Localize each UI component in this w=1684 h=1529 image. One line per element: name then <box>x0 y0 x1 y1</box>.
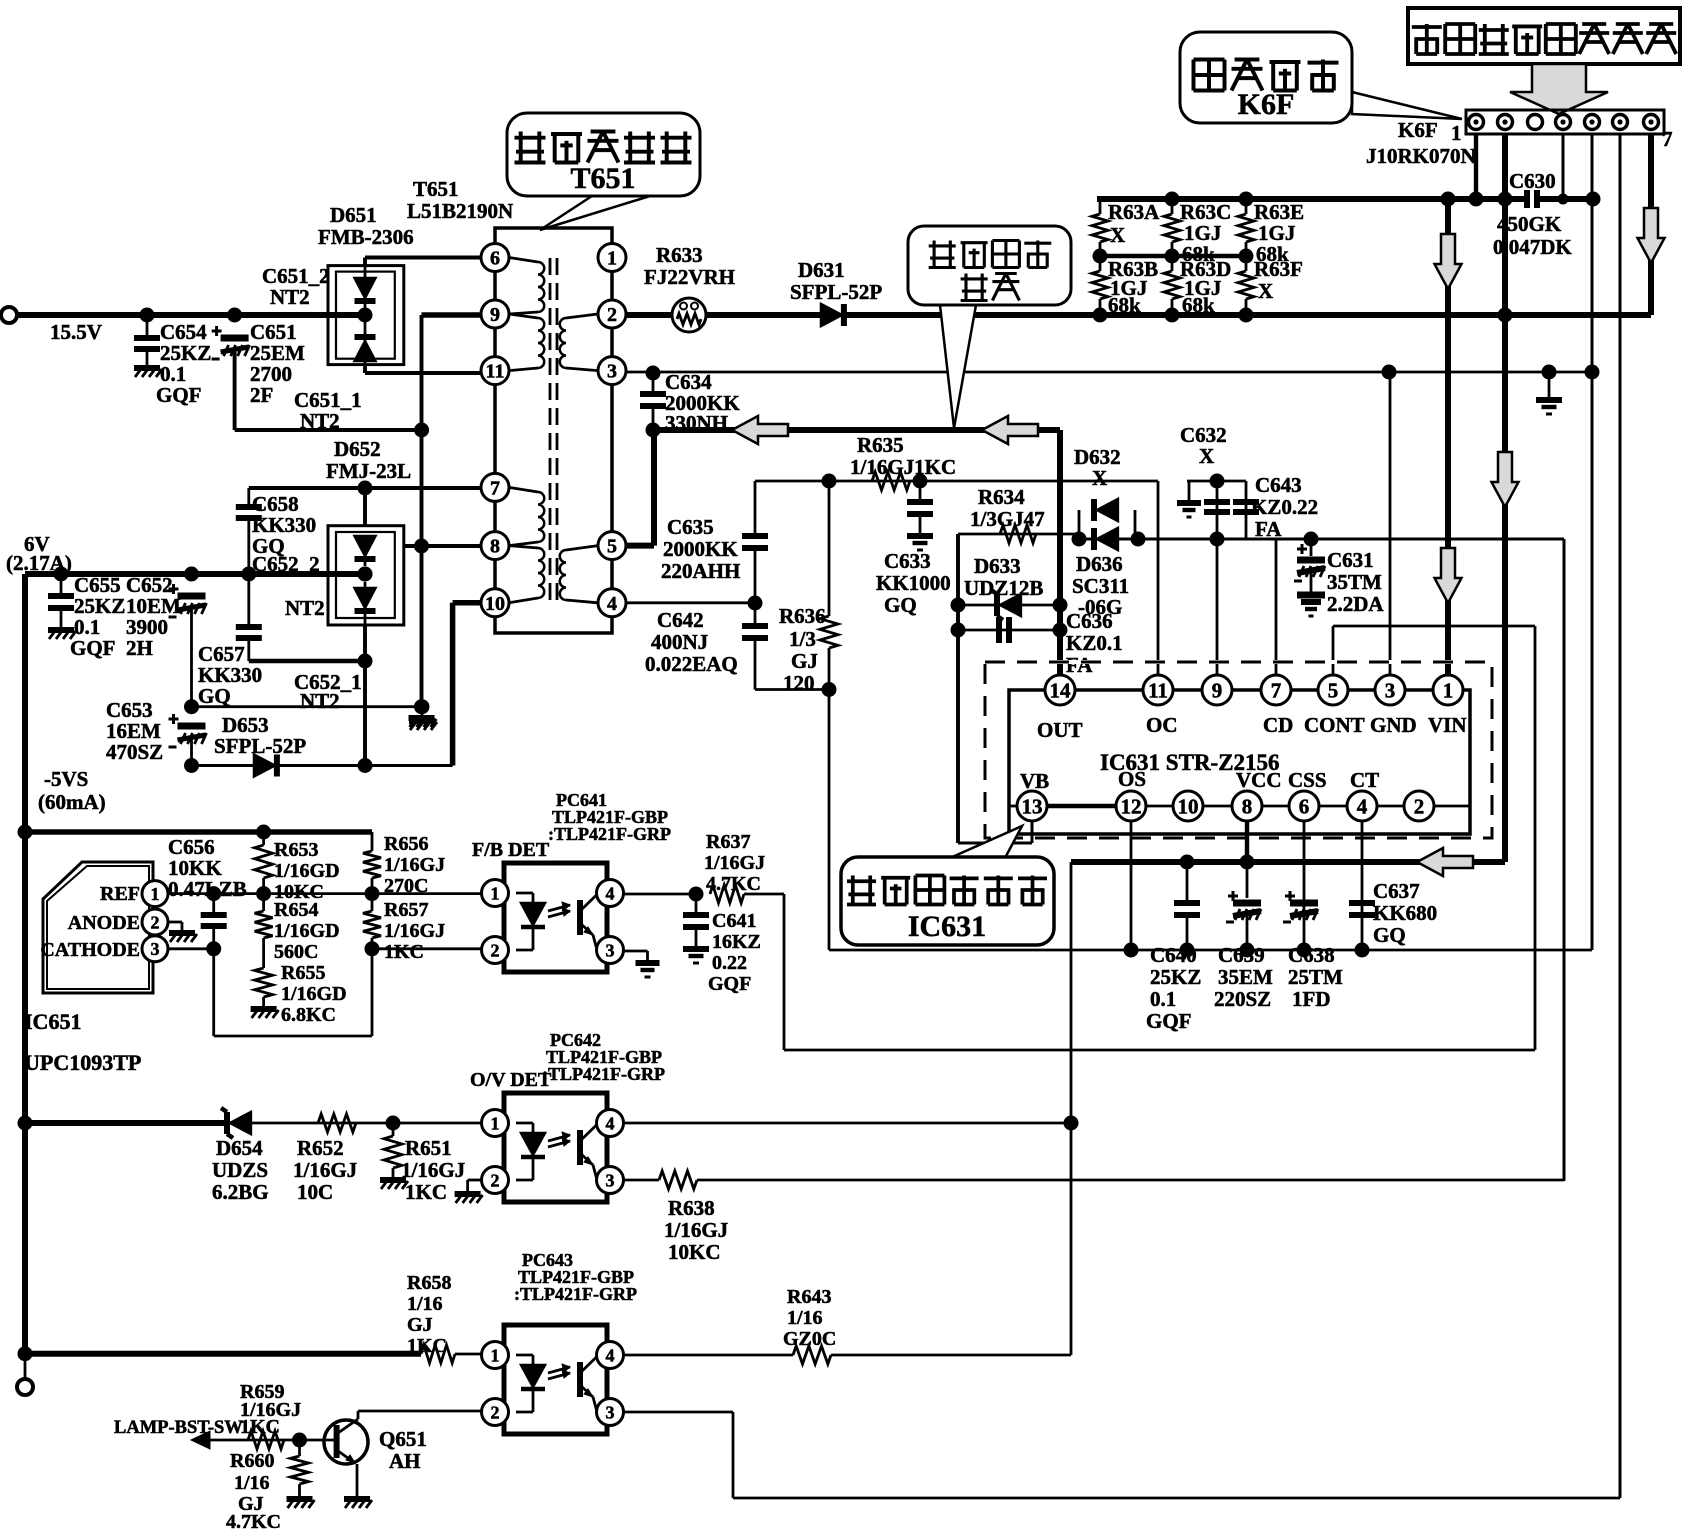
svg-text:FMJ-23L: FMJ-23L <box>326 459 411 483</box>
svg-text:LAMP-BST-SW: LAMP-BST-SW <box>114 1418 243 1438</box>
svg-text:ANODE: ANODE <box>68 912 140 934</box>
svg-text:0.47LZB: 0.47LZB <box>168 877 247 901</box>
svg-text:R660: R660 <box>230 1450 274 1472</box>
svg-text:1: 1 <box>491 1113 500 1133</box>
svg-text:C639: C639 <box>1218 943 1265 967</box>
svg-text:4.7KC: 4.7KC <box>226 1511 281 1529</box>
svg-text:3: 3 <box>1385 678 1396 702</box>
svg-text:R653: R653 <box>274 839 318 861</box>
svg-text:C638: C638 <box>1288 943 1335 967</box>
svg-text:Q651: Q651 <box>379 1427 427 1451</box>
svg-text:D651: D651 <box>330 203 377 227</box>
svg-text:X: X <box>1110 223 1125 247</box>
svg-text:FA: FA <box>1255 517 1282 541</box>
svg-text:R657: R657 <box>384 899 428 921</box>
svg-text:F/B DET: F/B DET <box>472 839 550 861</box>
svg-text:1/16GJ: 1/16GJ <box>704 852 765 874</box>
svg-text:1/16GJ: 1/16GJ <box>384 854 445 876</box>
svg-text:CD: CD <box>1263 713 1293 737</box>
svg-text:3: 3 <box>607 361 617 383</box>
svg-text:1FD: 1FD <box>1292 987 1331 1011</box>
svg-text:O/V DET: O/V DET <box>470 1069 552 1091</box>
svg-text:6.8KC: 6.8KC <box>281 1004 336 1026</box>
svg-text:1/16: 1/16 <box>234 1472 270 1494</box>
svg-text:470SZ: 470SZ <box>106 740 163 764</box>
svg-text:C633: C633 <box>884 549 931 573</box>
svg-text:UDZ12B: UDZ12B <box>964 576 1043 600</box>
svg-text:10: 10 <box>485 593 505 615</box>
svg-text:10KC: 10KC <box>668 1240 721 1264</box>
svg-text:3: 3 <box>151 939 160 959</box>
svg-text:T651: T651 <box>570 162 635 195</box>
svg-text:5: 5 <box>607 536 617 558</box>
svg-text:X: X <box>1092 466 1107 490</box>
svg-text:R636: R636 <box>779 604 826 628</box>
svg-text:1: 1 <box>1451 121 1462 145</box>
svg-text:8: 8 <box>1242 794 1253 818</box>
svg-text:2H: 2H <box>126 636 153 660</box>
svg-text:C642: C642 <box>657 608 704 632</box>
svg-text:D633: D633 <box>974 554 1021 578</box>
svg-text:GQF: GQF <box>70 636 116 660</box>
svg-text:1/16GD: 1/16GD <box>274 860 340 882</box>
svg-text:1/16GJ: 1/16GJ <box>401 1158 465 1182</box>
svg-text:KZ0.1: KZ0.1 <box>1066 631 1123 655</box>
svg-text:0.22: 0.22 <box>712 952 747 974</box>
svg-text:REF: REF <box>100 883 140 905</box>
svg-text:1/16GJ: 1/16GJ <box>293 1158 357 1182</box>
svg-text:C643: C643 <box>1255 473 1302 497</box>
svg-text:220AHH: 220AHH <box>661 559 740 583</box>
svg-text:NT2: NT2 <box>300 689 340 713</box>
svg-text:1KC: 1KC <box>405 1180 447 1204</box>
svg-text:D636: D636 <box>1076 552 1123 576</box>
svg-text:C630: C630 <box>1509 169 1556 193</box>
svg-text:13: 13 <box>1022 794 1043 818</box>
svg-text:4: 4 <box>606 883 615 903</box>
svg-text:2: 2 <box>491 940 500 960</box>
svg-text:1/3: 1/3 <box>789 627 816 651</box>
svg-text:2: 2 <box>1414 794 1425 818</box>
svg-text:1KC: 1KC <box>384 941 424 963</box>
svg-text:GQF: GQF <box>156 383 202 407</box>
svg-text:4: 4 <box>606 1345 615 1365</box>
svg-text:R651: R651 <box>405 1136 452 1160</box>
svg-text:C641: C641 <box>712 910 756 932</box>
svg-text:35TM: 35TM <box>1327 570 1382 594</box>
svg-text:GQF: GQF <box>708 973 751 995</box>
svg-text:CSS: CSS <box>1288 768 1327 792</box>
svg-text:R638: R638 <box>668 1196 715 1220</box>
svg-text:GQ: GQ <box>1373 923 1406 947</box>
svg-text:1/16GJ: 1/16GJ <box>664 1218 728 1242</box>
svg-text:7: 7 <box>1662 127 1673 151</box>
svg-text:1: 1 <box>1443 678 1454 702</box>
svg-text:1: 1 <box>491 1345 500 1365</box>
svg-text:2: 2 <box>607 304 617 326</box>
svg-text:R63A: R63A <box>1108 200 1160 224</box>
svg-text:16KZ: 16KZ <box>712 931 761 953</box>
svg-text:FJ22VRH: FJ22VRH <box>644 265 735 289</box>
svg-text:3: 3 <box>606 940 615 960</box>
svg-text:SFPL-52P: SFPL-52P <box>214 734 306 758</box>
svg-text:FA: FA <box>1066 653 1093 677</box>
svg-text:35EM: 35EM <box>1218 965 1273 989</box>
svg-text:3: 3 <box>606 1402 615 1422</box>
svg-text:1: 1 <box>607 248 617 270</box>
svg-text:1/16: 1/16 <box>787 1307 823 1329</box>
svg-text:25TM: 25TM <box>1288 965 1343 989</box>
svg-text:VB: VB <box>1020 769 1049 793</box>
svg-text:IC631: IC631 <box>908 910 986 943</box>
svg-text:CATHODE: CATHODE <box>40 939 140 961</box>
svg-text:0.1: 0.1 <box>1150 987 1176 1011</box>
svg-text:AH: AH <box>389 1449 421 1473</box>
svg-text:C640: C640 <box>1150 943 1197 967</box>
svg-text:8: 8 <box>490 536 500 558</box>
svg-text:R655: R655 <box>281 962 325 984</box>
svg-text:GND: GND <box>1370 713 1417 737</box>
svg-text:R658: R658 <box>407 1272 451 1294</box>
svg-text:C636: C636 <box>1066 609 1113 633</box>
svg-text:R654: R654 <box>274 899 318 921</box>
svg-text:GJ: GJ <box>407 1314 433 1336</box>
svg-text:GQ: GQ <box>884 593 917 617</box>
svg-text:25KZ: 25KZ <box>1150 965 1201 989</box>
svg-text:1: 1 <box>491 883 500 903</box>
svg-text:X: X <box>1258 279 1273 303</box>
svg-text:6.2BG: 6.2BG <box>212 1180 269 1204</box>
svg-text:NT2: NT2 <box>300 409 340 433</box>
svg-text:R63F: R63F <box>1254 257 1303 281</box>
svg-text:D654: D654 <box>216 1136 263 1160</box>
svg-text:2000KK: 2000KK <box>663 537 738 561</box>
svg-text:1/16: 1/16 <box>407 1293 443 1315</box>
svg-text:UDZS: UDZS <box>212 1158 268 1182</box>
svg-text:7: 7 <box>1271 678 1282 702</box>
svg-text:11: 11 <box>486 361 505 383</box>
svg-text:K6F: K6F <box>1238 88 1295 121</box>
svg-text:2.2DA: 2.2DA <box>1327 592 1384 616</box>
svg-text:560C: 560C <box>274 941 318 963</box>
svg-text:CONT: CONT <box>1304 713 1365 737</box>
svg-text:2: 2 <box>491 1402 500 1422</box>
svg-text:X: X <box>1199 444 1214 468</box>
svg-text:KK680: KK680 <box>1373 901 1437 925</box>
svg-text:5: 5 <box>1328 678 1339 702</box>
svg-text:UPC1093TP: UPC1093TP <box>24 1050 141 1075</box>
svg-text:D631: D631 <box>798 258 845 282</box>
svg-text:6: 6 <box>1299 794 1310 818</box>
svg-text:NT2: NT2 <box>285 596 325 620</box>
svg-text:R635: R635 <box>857 433 904 457</box>
svg-text:R643: R643 <box>787 1286 831 1308</box>
svg-text:400NJ: 400NJ <box>651 630 708 654</box>
svg-text:12: 12 <box>1121 794 1142 818</box>
svg-text:IC651: IC651 <box>24 1009 81 1034</box>
svg-text:1/16GD: 1/16GD <box>281 983 347 1005</box>
svg-text:(2.17A): (2.17A) <box>6 551 72 575</box>
svg-text:C631: C631 <box>1327 548 1374 572</box>
svg-text:2F: 2F <box>250 383 273 407</box>
svg-text:CT: CT <box>1350 768 1379 792</box>
svg-text:FMB-2306: FMB-2306 <box>318 225 414 249</box>
svg-text:R634: R634 <box>978 485 1025 509</box>
svg-text:R633: R633 <box>656 243 703 267</box>
svg-text:1/3GJ47: 1/3GJ47 <box>970 507 1045 531</box>
svg-text:1/16GD: 1/16GD <box>274 920 340 942</box>
svg-text:KZ0.22: KZ0.22 <box>1251 495 1318 519</box>
svg-text:IC631 STR-Z2156: IC631 STR-Z2156 <box>1100 750 1280 775</box>
svg-text:T651: T651 <box>413 177 459 201</box>
svg-text:10C: 10C <box>297 1180 333 1204</box>
svg-text:1: 1 <box>151 884 160 904</box>
svg-text:R637: R637 <box>706 831 750 853</box>
svg-text:4: 4 <box>606 1113 615 1133</box>
svg-text:15.5V: 15.5V <box>50 320 102 344</box>
svg-text:GQ: GQ <box>198 684 231 708</box>
svg-text:-5VS: -5VS <box>44 767 88 791</box>
svg-text:SFPL-52P: SFPL-52P <box>790 280 882 304</box>
svg-text:R652: R652 <box>297 1136 344 1160</box>
svg-text:7: 7 <box>490 477 500 499</box>
svg-text:GZ0C: GZ0C <box>783 1328 836 1350</box>
svg-text:D652: D652 <box>334 437 381 461</box>
svg-text:(60mA): (60mA) <box>38 790 106 814</box>
svg-text::TLP421F-GRP: :TLP421F-GRP <box>548 824 671 844</box>
svg-text:1KC: 1KC <box>407 1335 447 1357</box>
svg-text:GQF: GQF <box>1146 1009 1192 1033</box>
svg-text:10: 10 <box>1178 794 1199 818</box>
svg-text:9: 9 <box>490 304 500 326</box>
svg-text:KK1000: KK1000 <box>876 571 951 595</box>
svg-text:OUT: OUT <box>1037 718 1083 742</box>
svg-text::TLP421F-GRP: :TLP421F-GRP <box>514 1284 637 1304</box>
svg-text:1/16GJ: 1/16GJ <box>384 920 445 942</box>
svg-text:NT2: NT2 <box>270 285 310 309</box>
svg-text:L51B2190N: L51B2190N <box>407 199 513 223</box>
svg-text:3: 3 <box>606 1170 615 1190</box>
svg-text:2: 2 <box>491 1170 500 1190</box>
svg-text:4.7KC: 4.7KC <box>706 873 761 895</box>
svg-text:C637: C637 <box>1373 879 1420 903</box>
svg-text:11: 11 <box>1148 678 1168 702</box>
svg-text:J10RK070N: J10RK070N <box>1366 144 1476 168</box>
svg-text:K6F: K6F <box>1398 118 1438 142</box>
svg-text::TLP421F-GRP: :TLP421F-GRP <box>542 1064 665 1084</box>
svg-text:1/16GJ1KC: 1/16GJ1KC <box>850 455 956 479</box>
svg-text:VIN: VIN <box>1428 713 1467 737</box>
svg-text:220SZ: 220SZ <box>1214 987 1271 1011</box>
svg-text:C635: C635 <box>667 515 714 539</box>
svg-text:OC: OC <box>1146 713 1178 737</box>
svg-text:0.022EAQ: 0.022EAQ <box>645 652 738 676</box>
svg-text:4: 4 <box>607 593 617 615</box>
svg-text:6: 6 <box>490 248 500 270</box>
svg-text:R656: R656 <box>384 833 428 855</box>
svg-text:9: 9 <box>1212 678 1223 702</box>
svg-text:GJ: GJ <box>791 649 818 673</box>
svg-text:1KC: 1KC <box>240 1416 280 1438</box>
svg-text:2: 2 <box>151 912 160 932</box>
svg-text:120: 120 <box>783 671 815 695</box>
svg-text:14: 14 <box>1050 678 1072 702</box>
svg-text:4: 4 <box>1357 794 1368 818</box>
